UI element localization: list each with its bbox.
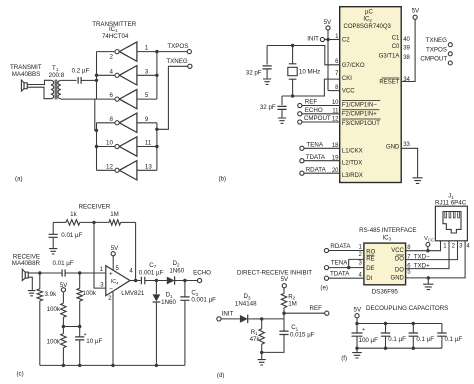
svg-text:µC: µC (365, 9, 373, 15)
node ground bus junctions (62, 364, 65, 367)
wire upper input bus (96, 52, 98, 100)
svg-text:F1/CMP1IN−: F1/CMP1IN− (342, 103, 377, 109)
node ground tap (427, 276, 430, 279)
svg-text:L1/CKX: L1/CKX (342, 148, 363, 154)
node input (38, 271, 41, 274)
wire ground bus of receiver (40, 364, 185, 366)
terminal TXNEG (157, 58, 192, 129)
op-amp IC4 LMV821 (100, 266, 145, 303)
label uC IC2 COP8SGR740Q3 (344, 9, 392, 30)
power 5V to INIT node and VCC pin 8 (324, 19, 332, 91)
svg-text:3: 3 (145, 68, 149, 75)
svg-text:L2/TDX: L2/TDX (342, 161, 362, 167)
terminal TXPOS (157, 43, 192, 54)
node echo junction (183, 279, 186, 282)
wire divider to bias column (63, 326, 79, 328)
svg-text:RESET: RESET (379, 80, 399, 86)
svg-text:C0: C0 (392, 44, 400, 50)
ground of transducer (28, 291, 36, 296)
terminal INIT input (217, 311, 240, 322)
svg-text:(f): (f) (341, 355, 347, 362)
inverter IC1 gate 4 (pins 8/9) (97, 113, 157, 132)
wire lower output bus (156, 123, 158, 171)
node after coupling cap (78, 271, 81, 274)
power VCC tap (424, 236, 434, 252)
svg-text:100k: 100k (47, 338, 61, 345)
svg-text:5V: 5V (412, 8, 420, 15)
inverter IC1 gate 6 (pins 12/13) (97, 161, 157, 180)
svg-text:1N60: 1N60 (169, 268, 184, 275)
capacitor 32 pF lower (260, 96, 287, 118)
power 5V divider (60, 282, 68, 292)
inverter IC1 gate 3 (pins 6/5) (97, 89, 157, 108)
capacitor 0.1 uF first (381, 324, 406, 349)
capacitor 0.1 uF third (437, 324, 462, 349)
svg-text:VCC: VCC (391, 248, 404, 254)
svg-text:TENA: TENA (331, 260, 348, 267)
power 5V decoupling rail (354, 307, 362, 324)
svg-text:INIT: INIT (307, 36, 319, 43)
capacitor 100 uF (352, 324, 379, 349)
wire decoupling top rail (357, 323, 442, 325)
svg-text:9: 9 (145, 116, 149, 123)
wire transformer secondary bottom to pin 6 row (61, 98, 97, 100)
svg-text:5: 5 (145, 92, 149, 99)
svg-text:DO: DO (395, 268, 404, 274)
svg-text:2: 2 (109, 54, 113, 61)
svg-text:0.01 µF: 0.01 µF (61, 232, 82, 239)
svg-text:INIT: INIT (222, 311, 234, 318)
ground of lower 32 pF (278, 118, 286, 123)
wire VCC pin 8 to jack pin 1 (406, 241, 441, 251)
svg-text:MA40BBS: MA40BBS (12, 71, 41, 78)
svg-text:3.9k: 3.9k (45, 291, 58, 298)
terminal TENA to pin 18 (300, 141, 340, 150)
wire pin 8 VCC stub (328, 90, 340, 92)
svg-text:TENA: TENA (307, 141, 324, 148)
terminal ECHO to pin 11 (298, 107, 340, 116)
svg-text:TXPOS: TXPOS (426, 46, 447, 53)
capacitor 0.01 uF input coupling (40, 260, 106, 277)
svg-text:GND: GND (386, 145, 400, 151)
power 5V to RESET pin 34 (402, 8, 420, 82)
crystal Y1 10 MHz (288, 46, 320, 97)
svg-text:47k: 47k (250, 336, 261, 343)
svg-text:200:8: 200:8 (49, 72, 65, 79)
svg-text:1N4148: 1N4148 (235, 301, 257, 308)
transducer RECEIVE MA40B8R (12, 254, 41, 281)
svg-text:IC2: IC2 (363, 17, 372, 23)
ground of IC2 GND pin (413, 178, 423, 184)
wire transducer lower lead to ground (28, 277, 32, 290)
svg-text:1M: 1M (110, 211, 119, 218)
resistor 100k divider bottom (47, 327, 67, 366)
resistor 1M feedback (109, 211, 136, 225)
wire op-amp output (130, 280, 141, 282)
svg-text:C2: C2 (342, 38, 350, 44)
resistor 3.9k input load (37, 273, 57, 365)
svg-text:+: + (109, 270, 113, 277)
wire ground drop (427, 278, 429, 284)
svg-text:38: 38 (403, 55, 410, 61)
svg-text:RDATA: RDATA (306, 166, 327, 173)
terminal REF output (284, 305, 329, 315)
svg-text:(c): (c) (17, 370, 24, 377)
svg-text:REF: REF (305, 99, 318, 106)
terminal TDATA to pin 19 (300, 154, 340, 163)
node upper input bus junctions (95, 74, 98, 77)
svg-text:RE: RE (366, 257, 374, 263)
node lower input bus junctions (95, 129, 98, 132)
svg-text:5V: 5V (281, 276, 289, 283)
svg-text:DO: DO (395, 256, 404, 262)
svg-text:TXNEG: TXNEG (166, 58, 188, 65)
wire upper output bus (156, 52, 158, 100)
svg-text:0.2 µF: 0.2 µF (72, 68, 90, 75)
terminal CMPOUT to pin 12 (298, 115, 340, 124)
diode D3 1N4148 (235, 293, 262, 323)
svg-text:F2/CMP1IN+: F2/CMP1IN+ (342, 112, 377, 118)
node lower output bus junctions (155, 128, 158, 131)
svg-text:CKI: CKI (342, 76, 352, 82)
svg-text:REF: REF (310, 305, 323, 312)
svg-text:74HCT04: 74HCT04 (102, 33, 129, 40)
diode D2 1N60 (167, 260, 198, 285)
pin names left side of IC2 (342, 38, 381, 180)
svg-text:RECEIVER: RECEIVER (79, 204, 111, 211)
svg-text:RDATA: RDATA (330, 243, 351, 250)
wire GND pin 33 to ground (402, 148, 418, 177)
wire branch to lower inverter inputs (95, 99, 97, 130)
svg-text:1N60: 1N60 (161, 299, 176, 306)
inverter IC1 gate 1 (pins 2/1) (97, 42, 157, 61)
wire GND pin 5 to jack pin 4 (406, 241, 466, 278)
wire node to C1 branch (262, 318, 284, 320)
pin names of IC3 (366, 248, 404, 282)
svg-text:(e): (e) (320, 284, 328, 291)
svg-text:39: 39 (403, 46, 410, 52)
svg-text:L3/RDX: L3/RDX (342, 173, 363, 179)
node R1 bottom junction (260, 351, 263, 354)
svg-text:CMPOUT: CMPOUT (420, 55, 447, 62)
svg-text:100 µF: 100 µF (359, 337, 379, 344)
wire pin 6 G7/CKO to crystal top (267, 46, 340, 65)
capacitor C2 0.001 uF (180, 281, 216, 366)
resistor R1 47k (250, 319, 265, 359)
terminal RDATA to pin 20 (300, 166, 340, 175)
resistor 100k divider top (47, 292, 67, 327)
svg-text:100k: 100k (47, 306, 61, 313)
node feedback tap (134, 279, 137, 282)
wire feedback node to pin 3 (94, 222, 106, 288)
svg-text:+: + (362, 327, 365, 333)
wire lower input bus (96, 123, 98, 171)
svg-text:CMPOUT: CMPOUT (304, 115, 331, 122)
inverter IC1 gate 2 (pins 4/3) (97, 66, 157, 85)
svg-text:100k: 100k (83, 290, 97, 297)
pin numbers of IC3 (358, 245, 411, 279)
op-amp U2 box IC2 COP8SGR740Q3 microcontroller (340, 7, 402, 183)
ground of upper 32 pF (263, 79, 271, 84)
resistor R2 1M (281, 288, 297, 319)
node divider junction (62, 325, 65, 328)
node upper output bus junctions (155, 50, 158, 53)
svg-text:F3/CMP1OUT: F3/CMP1OUT (342, 121, 380, 127)
ground of RS-485 (423, 284, 433, 289)
svg-text:13: 13 (145, 163, 152, 170)
terminal CMPOUT flag (420, 55, 452, 65)
power 5V op-amp pin 5 (111, 245, 119, 270)
svg-text:0.1 µF: 0.1 µF (416, 336, 434, 343)
svg-text:TRANSMIT: TRANSMIT (10, 64, 42, 71)
svg-text:0.1 µF: 0.1 µF (445, 336, 463, 343)
wire 1M to op-amp output (135, 222, 137, 280)
node rail junctions (355, 322, 358, 325)
svg-text:10 MHz: 10 MHz (299, 69, 320, 76)
svg-text:C1: C1 (392, 35, 400, 41)
svg-text:GND: GND (391, 276, 405, 282)
svg-text:6: 6 (109, 92, 113, 99)
svg-text:0.01 µF: 0.01 µF (53, 260, 74, 267)
svg-text:0.001 µF: 0.001 µF (139, 270, 164, 277)
op-amp U3 box IC3 DS36F95 transceiver (364, 243, 406, 285)
svg-text:DS36F95: DS36F95 (372, 288, 399, 295)
node feedback junction (92, 221, 95, 224)
node crystal top junction (291, 44, 294, 47)
capacitor C7 0.001 uF (139, 262, 167, 284)
pin names right side of IC2 (379, 35, 400, 150)
svg-text:−: − (109, 286, 113, 293)
node inhibit junction (260, 317, 263, 320)
pin numbers of IC2 (332, 34, 411, 174)
wire coupling cap to input bus (81, 79, 96, 81)
wire DO pin 6 TXD+ to jack pin 2 (406, 241, 449, 270)
resistor 100k bias upper (77, 273, 97, 327)
wire DO pin 7 TXD- to jack pin 3 (406, 241, 458, 261)
svg-text:1: 1 (145, 45, 149, 52)
terminal TENA to RE and DE (324, 259, 364, 269)
wire rail ground drop (356, 348, 358, 352)
svg-text:COP8SGR740Q3: COP8SGR740Q3 (344, 24, 392, 30)
terminal REF to pin 10 (298, 99, 340, 108)
svg-text:0.015 µF: 0.015 µF (290, 331, 315, 338)
capacitor 0.01 uF feedback bypass (49, 222, 83, 248)
svg-text:TXNEG: TXNEG (426, 37, 448, 44)
capacitor 0.2 uF coupling (72, 68, 90, 84)
svg-text:33: 33 (403, 142, 410, 148)
svg-text:RO: RO (366, 249, 375, 255)
svg-text:32 pF: 32 pF (246, 69, 262, 76)
wire transducer leads to transformer (27, 80, 51, 84)
terminal TDATA to DI (324, 270, 364, 280)
ground of decoupling rail (352, 353, 362, 358)
terminal INIT to pin 1 (307, 36, 339, 43)
svg-text:DIRECT-RECEIVE INHIBIT: DIRECT-RECEIVE INHIBIT (237, 269, 312, 276)
terminal TXNEG flag (426, 37, 453, 47)
svg-text:DECOUPLING CAPACITORS: DECOUPLING CAPACITORS (366, 305, 448, 312)
node detector junction (155, 279, 158, 282)
diode D1 1N60 (153, 281, 177, 366)
wire pin 7 CKI to crystal bottom (282, 79, 340, 96)
svg-text:11: 11 (145, 140, 152, 147)
ground of feedback bypass cap (49, 249, 57, 254)
svg-text:VCC: VCC (424, 236, 434, 242)
svg-text:5V: 5V (111, 245, 119, 252)
wire op-amp pin 2 to ground bus (112, 292, 114, 365)
resistor 1k feedback (53, 211, 109, 225)
terminal TXPOS flag (426, 46, 452, 56)
svg-text:5V: 5V (324, 19, 332, 26)
svg-text:TDATA: TDATA (306, 154, 326, 161)
svg-text:12: 12 (106, 163, 113, 170)
terminal ECHO output (193, 270, 211, 283)
svg-text:MA40B8R: MA40B8R (12, 260, 41, 267)
transformer T1 200:8 (49, 65, 65, 100)
title TRANSMITTER IC1 74HCT04 (92, 21, 137, 40)
connector J1 RJ11 6P4C (435, 194, 470, 250)
svg-text:IC4: IC4 (111, 279, 119, 285)
svg-text:RS-485 INTERFACE: RS-485 INTERFACE (359, 227, 416, 234)
svg-text:32 pF: 32 pF (260, 104, 276, 111)
svg-text:G7/CKO: G7/CKO (342, 63, 365, 69)
ground of R1 (258, 360, 266, 365)
wire transducer to input node (28, 272, 40, 274)
svg-text:TXPOS: TXPOS (167, 43, 188, 50)
svg-text:(a): (a) (15, 176, 23, 183)
capacitor 32 pF upper (246, 46, 272, 79)
svg-text:DE: DE (366, 266, 374, 272)
capacitor C1 0.015 uF (262, 319, 315, 353)
svg-text:ECHO: ECHO (305, 107, 323, 114)
transducer TRANSMIT MA40BBS (10, 64, 42, 91)
svg-text:10: 10 (106, 140, 113, 147)
svg-text:0.001 µF: 0.001 µF (191, 297, 216, 304)
svg-text:DI: DI (366, 276, 372, 282)
svg-text:10 µF: 10 µF (86, 338, 102, 345)
wire decoupling bottom rail (357, 347, 442, 349)
svg-text:40: 40 (403, 37, 410, 43)
power 5V inhibit (281, 276, 289, 288)
svg-text:VCC: VCC (342, 89, 355, 95)
svg-text:0.1 µF: 0.1 µF (388, 336, 406, 343)
title RS-485 INTERFACE IC3 (359, 227, 416, 242)
node crystal bottom junction (291, 94, 294, 97)
capacitor 0.1 uF second (409, 324, 435, 349)
wire transformer secondary top to coupling cap (61, 79, 77, 81)
terminal RDATA to RO (324, 243, 364, 253)
capacitor 10 uF bias bypass (75, 327, 102, 366)
svg-text:8: 8 (109, 116, 113, 123)
svg-text:TDATA: TDATA (330, 270, 350, 277)
svg-text:G3/T1A: G3/T1A (379, 54, 400, 60)
svg-text:LMV821: LMV821 (121, 290, 145, 297)
svg-text:ECHO: ECHO (193, 270, 211, 277)
inverter IC1 gate 5 (pins 10/11) (97, 137, 157, 156)
svg-text:4: 4 (109, 68, 113, 75)
svg-text:1k: 1k (70, 211, 77, 218)
svg-text:(d): (d) (217, 372, 225, 379)
svg-text:1M: 1M (288, 301, 297, 308)
svg-text:5V: 5V (354, 307, 362, 314)
node REF junction (282, 312, 285, 315)
svg-text:(b): (b) (219, 176, 227, 183)
